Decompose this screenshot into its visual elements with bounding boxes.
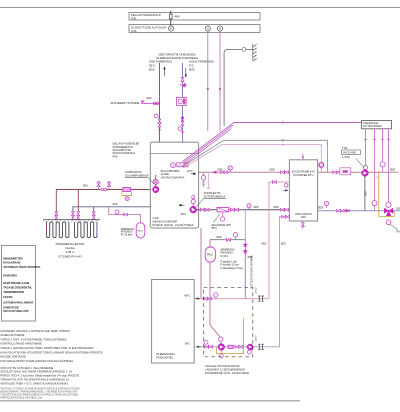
svg-text:KÜTTESÜSTEEMI TÄITMINE: KÜTTESÜSTEEMI TÄITMINE bbox=[250, 255, 253, 289]
svg-text:Ø28: Ø28 bbox=[274, 205, 279, 209]
svg-text:M: M bbox=[170, 27, 172, 31]
svg-text:ÜHTLUSTUSKLAPP: ÜHTLUSTUSKLAPP bbox=[3, 309, 29, 313]
svg-text:ÜJK: ÜJK bbox=[131, 29, 137, 33]
svg-text:TAGASILÖÖGIVENTIIL: TAGASILÖÖGIVENTIIL bbox=[3, 285, 32, 289]
svg-text:KATLAMAJA PESTA TULEB JÄRGIDA: KATLAMAJA PESTA TULEB JÄRGIDA KATLAGA KÜ… bbox=[0, 359, 74, 363]
svg-text:ST 20WD PV-A-43: ST 20WD PV-A-43 bbox=[58, 255, 82, 259]
svg-text:100L: 100L bbox=[301, 216, 307, 219]
svg-text:2,08 m: 2,08 m bbox=[66, 250, 75, 254]
svg-text:48V: 48V bbox=[175, 15, 180, 19]
svg-text:OLEMASOLEV: OLEMASOLEV bbox=[363, 122, 379, 125]
svg-text:KÜTTESÜSTEEM: KÜTTESÜSTEEM bbox=[363, 125, 382, 128]
svg-text:M: M bbox=[207, 27, 209, 31]
svg-text:KÜTTEPUMBAGA: KÜTTEPUMBAGA bbox=[204, 194, 226, 198]
svg-text:SOLAARPUMBAGA: SOLAARPUMBAGA bbox=[125, 174, 149, 178]
svg-text:PN6: PN6 bbox=[113, 155, 118, 158]
svg-text:VENTIILIDE TASIN + UTY, ÜHIKUT: VENTIILIDE TASIN + UTY, ÜHIKUTE AIAKESKK… bbox=[0, 381, 68, 385]
svg-text:TM: TM bbox=[396, 231, 399, 234]
svg-text:TORUKATTE KÜTI TIE KINNITATAVA: TORUKATTE KÜTI TIE KINNITATAVALE VARIAND… bbox=[0, 378, 69, 382]
svg-text:Ø22: Ø22 bbox=[281, 242, 286, 246]
svg-text:Ø16: Ø16 bbox=[83, 183, 88, 187]
svg-text:Ø16: Ø16 bbox=[147, 96, 152, 100]
svg-text:VIA 23 NPU: VIA 23 NPU bbox=[343, 152, 357, 155]
svg-text:Ø28: Ø28 bbox=[254, 205, 259, 209]
svg-text:P kaitseklapp 2,5 bar: P kaitseklapp 2,5 bar bbox=[221, 267, 243, 270]
svg-text:INTEGR. 2kW EL. LISAKÜTTEGA: INTEGR. 2kW EL. LISAKÜTTEGA bbox=[153, 223, 194, 227]
svg-text:4,7kPa: 4,7kPa bbox=[342, 156, 350, 159]
svg-text:TH3: TH3 bbox=[342, 146, 348, 150]
svg-text:KOMPLEKTIS: KOMPLEKTIS bbox=[125, 170, 142, 174]
svg-text:M: M bbox=[219, 27, 221, 31]
svg-text:TERMOMEETER: TERMOMEETER bbox=[3, 290, 24, 294]
svg-text:38°C: 38°C bbox=[185, 341, 191, 345]
svg-text:PUIDUKATEL: PUIDUKATEL bbox=[156, 356, 174, 360]
svg-text:FILTER: FILTER bbox=[3, 295, 12, 299]
svg-text:Ø28: Ø28 bbox=[390, 168, 395, 172]
svg-text:SOOJUST VAKO VALITSEMA TEMPERA: SOOJUST VAKO VALITSEMA TEMPERATUURIDELE … bbox=[0, 370, 72, 374]
svg-text:+50mm: +50mm bbox=[255, 286, 257, 294]
svg-text:PUHASVEE 60°C: PUHASVEE 60°C bbox=[294, 174, 314, 177]
svg-text:88°C: 88°C bbox=[185, 293, 191, 297]
svg-text:KÕRVALDATAVATELE KAITSEKS 1,5m: KÕRVALDATAVATELE KAITSEKS 1,5m bbox=[0, 396, 42, 399]
svg-text:MAASOOJUSPUMP: MAASOOJUSPUMP bbox=[153, 220, 178, 224]
svg-text:N=18 L: N=18 L bbox=[221, 255, 229, 258]
svg-text:KATLALE ON PAIGALDATUD: KATLALE ON PAIGALDATUD bbox=[205, 364, 240, 368]
svg-text:MEMBRAAN-: MEMBRAAN- bbox=[121, 228, 135, 231]
svg-text:55°C: 55°C bbox=[212, 227, 218, 230]
svg-text:MANOMEETER: MANOMEETER bbox=[3, 256, 22, 260]
svg-text:Ø16: Ø16 bbox=[113, 203, 118, 206]
svg-text:SÜSTEEMI TÄITMINE: SÜSTEEMI TÄITMINE bbox=[110, 101, 139, 105]
svg-text:AUTOMAATIKA ANDUR: AUTOMAATIKA ANDUR bbox=[3, 300, 33, 304]
svg-text:PJK: PJK bbox=[131, 17, 137, 21]
svg-text:SOOJENDUSE ÜHTL. KASUTUSELE: SOOJENDUSE ÜHTL. KASUTUSELE bbox=[205, 371, 249, 375]
svg-text:PN16: PN16 bbox=[207, 255, 213, 257]
svg-text:LADDOMAT 21 SEGAMISSEADIS: LADDOMAT 21 SEGAMISSEADIS bbox=[205, 368, 245, 372]
svg-text:+50mm: +50mm bbox=[255, 334, 257, 342]
svg-text:ELEKTRILINE AJAM: ELEKTRILINE AJAM bbox=[3, 281, 30, 285]
svg-text:JUHTAUTOMAATIKA: JUHTAUTOMAATIKA bbox=[161, 176, 185, 179]
svg-text:TORUD 1. EHIT. A KATSETAMISEL: TORUD 1. EHIT. A KATSETAMISEL TORUSÜSTEE… bbox=[0, 337, 67, 341]
svg-text:Ø16: Ø16 bbox=[217, 236, 222, 239]
svg-text:PU 18 liitrit: PU 18 liitrit bbox=[121, 233, 132, 236]
svg-text:Ø22: Ø22 bbox=[262, 242, 267, 246]
svg-text:Ø25: Ø25 bbox=[189, 68, 195, 72]
svg-text:43°C: 43°C bbox=[187, 170, 193, 173]
svg-text:36°C: 36°C bbox=[181, 213, 187, 216]
svg-text:Ø28: Ø28 bbox=[397, 207, 400, 210]
svg-text:KONTROLLITAKSE VAHETAMINE: KONTROLLITAKSE VAHETAMINE bbox=[0, 342, 42, 346]
svg-text:VAHEKASUTAMISE: VAHEKASUTAMISE bbox=[0, 333, 24, 337]
svg-text:PAISUNÕU: PAISUNÕU bbox=[121, 231, 133, 234]
svg-text:KUULKRAAN: KUULKRAAN bbox=[3, 260, 20, 264]
svg-text:Ø28: Ø28 bbox=[365, 191, 368, 196]
svg-text:Ø28: Ø28 bbox=[318, 206, 323, 210]
svg-text:Ø25: Ø25 bbox=[149, 68, 155, 72]
svg-text:4 kW: 4 kW bbox=[153, 216, 160, 220]
svg-text:PN16: PN16 bbox=[137, 231, 143, 233]
svg-text:KOMPLEKTIS: KOMPLEKTIS bbox=[204, 191, 221, 195]
svg-text:Ø28: Ø28 bbox=[270, 167, 275, 171]
